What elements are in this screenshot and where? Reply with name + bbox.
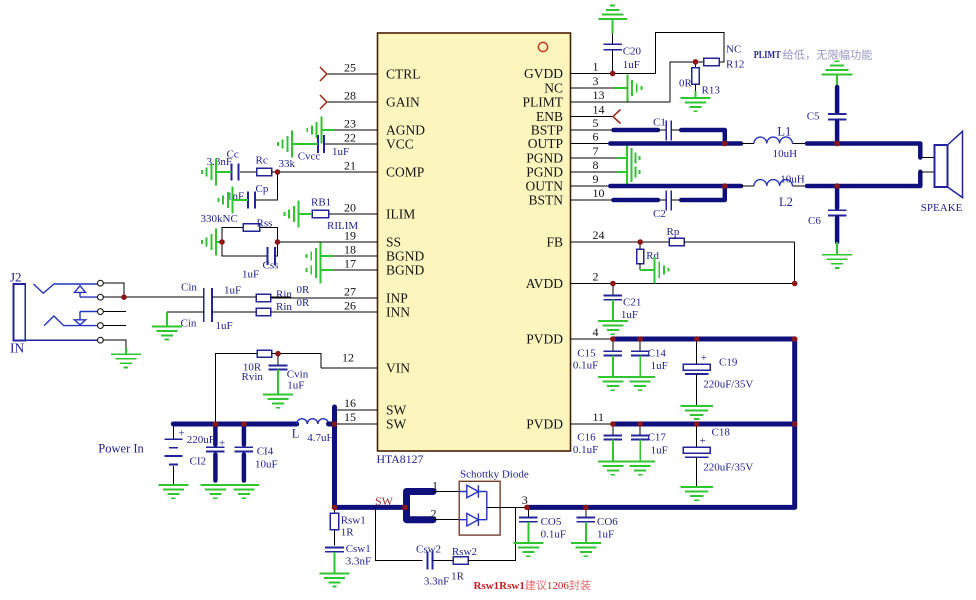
resistor Rd <box>637 242 660 270</box>
jack terminal circles <box>98 280 104 343</box>
wire Cin bottom to ground <box>167 311 204 313</box>
jack tip contact lever <box>34 284 98 293</box>
svg-text:33k: 33k <box>279 158 296 170</box>
ground C15 <box>598 355 628 390</box>
svg-text:INN: INN <box>386 305 410 320</box>
svg-text:给低，无限幅功能: 给低，无限幅功能 <box>783 48 873 62</box>
svg-text:Rvin: Rvin <box>242 371 264 383</box>
svg-text:PVDD: PVDD <box>526 417 563 432</box>
svg-text:220uF/35V: 220uF/35V <box>703 379 753 391</box>
svg-text:+: + <box>701 352 707 364</box>
svg-text:Power In: Power In <box>98 442 144 456</box>
svg-text:PGND: PGND <box>526 165 563 180</box>
inductor L 4.7uH <box>292 419 335 444</box>
svg-text:CO6: CO6 <box>597 516 618 528</box>
ground C16 <box>598 440 628 475</box>
pin 4 PVDD <box>526 325 614 347</box>
ground C6 <box>822 242 852 268</box>
capacitor Cvin 1uF <box>269 354 309 392</box>
ground CI2 <box>200 485 230 498</box>
wire speaker stub top <box>920 157 934 159</box>
svg-text:BSTN: BSTN <box>528 193 563 208</box>
svg-text:PLIMT: PLIMT <box>523 95 564 110</box>
wire OUTN to speaker <box>807 172 920 186</box>
ground C14 <box>625 355 655 390</box>
jack tip switch triangle <box>74 286 97 297</box>
svg-text:CTRL: CTRL <box>386 67 421 82</box>
wire jack ring2 stub <box>103 325 126 327</box>
wire C1 to OUTP <box>681 130 725 144</box>
wire Rin to pin 27 <box>271 296 291 298</box>
svg-text:+: + <box>700 435 706 447</box>
wire jack ring stub <box>103 311 126 313</box>
pin 1 GVDD <box>524 60 656 82</box>
resistor Rin 0R (INN) <box>256 297 310 316</box>
svg-text:1uF: 1uF <box>332 146 349 158</box>
svg-text:GVDD: GVDD <box>524 66 563 81</box>
svg-text:C20: C20 <box>623 46 642 58</box>
wire diode cathodes to pin3 <box>487 492 528 520</box>
wire BSTN thick <box>614 198 658 203</box>
ground RB1 sideways <box>284 201 312 228</box>
svg-text:GAIN: GAIN <box>386 95 420 110</box>
capacitor C15 0.1uF <box>573 339 622 372</box>
ground CO5 <box>513 522 543 556</box>
capacitor C18 220uF/35V polarized <box>683 424 753 487</box>
ground AGND sideways <box>307 117 334 144</box>
wire Rsw2 to output node <box>468 507 516 560</box>
svg-text:14: 14 <box>593 103 605 117</box>
svg-text:CI4: CI4 <box>257 446 274 458</box>
svg-text:15: 15 <box>344 410 356 424</box>
connector J2 audio jack body <box>10 270 98 356</box>
capacitor C17 1uF <box>631 424 668 457</box>
pin 23 AGND <box>334 117 425 138</box>
wire speaker stub bottom <box>920 171 934 173</box>
capacitor C6 <box>808 186 846 242</box>
jack ring switch triangle <box>74 312 97 325</box>
svg-text:OUTP: OUTP <box>528 136 563 151</box>
pin 10 BSTN <box>528 186 614 208</box>
capacitor C2 <box>653 191 681 221</box>
svg-text:C19: C19 <box>719 357 738 369</box>
svg-text:SPEAKE: SPEAKE <box>921 202 963 214</box>
pin 8 PGND <box>526 158 617 180</box>
svg-text:1: 1 <box>432 479 438 493</box>
svg-text:Cvcc: Cvcc <box>298 151 321 163</box>
svg-text:0R: 0R <box>297 284 311 296</box>
wire PLIMT to R13 node <box>670 62 696 102</box>
ground CO6 <box>571 522 601 556</box>
svg-text:1uF: 1uF <box>651 360 668 372</box>
svg-text:21: 21 <box>344 159 356 173</box>
pin 9 OUTN <box>526 172 615 194</box>
capacitor C19 220uF/35V polarized <box>683 339 753 406</box>
svg-text:Rin: Rin <box>276 289 292 301</box>
svg-text:BGND: BGND <box>386 263 425 278</box>
svg-text:L: L <box>292 427 300 441</box>
resistor Rvin 10R <box>215 350 278 424</box>
wire PVDD11 bus <box>613 422 795 427</box>
svg-text:0R: 0R <box>297 297 311 309</box>
pin 3 NC <box>544 74 613 96</box>
svg-text:0.1uF: 0.1uF <box>573 360 598 372</box>
svg-text:1uF: 1uF <box>597 529 614 541</box>
diode D1 top element <box>459 485 487 498</box>
svg-text:0R: 0R <box>679 78 693 90</box>
svg-text:L2: L2 <box>779 195 793 209</box>
ground Cin bottom <box>152 312 182 340</box>
wire OUTP thick <box>610 141 741 146</box>
svg-text:HTA8127: HTA8127 <box>377 452 424 466</box>
svg-text:1R: 1R <box>341 527 355 539</box>
pin 2 AVDD <box>526 270 795 292</box>
svg-text:22: 22 <box>344 131 356 145</box>
resistor Rss 330k NC loop <box>201 213 278 242</box>
wire GVDD to R12 route <box>656 33 724 74</box>
svg-text:CI2: CI2 <box>190 456 207 468</box>
svg-text:1R: 1R <box>451 571 465 583</box>
pin 18 BGND <box>333 243 424 264</box>
svg-text:6: 6 <box>593 130 599 144</box>
resistor R12 NC <box>696 44 745 71</box>
wire L to SW bar <box>329 422 335 427</box>
svg-text:C15: C15 <box>577 348 596 360</box>
ground Csw1 <box>320 552 350 587</box>
svg-text:SW: SW <box>386 417 407 432</box>
svg-text:Rsw1: Rsw1 <box>341 515 366 527</box>
svg-text:J2: J2 <box>10 270 22 285</box>
svg-text:C5: C5 <box>807 111 820 123</box>
svg-text:NC: NC <box>726 44 741 56</box>
pin 13 PLIMT <box>523 88 671 110</box>
ground C18 <box>680 487 713 500</box>
svg-text:12: 12 <box>342 351 354 365</box>
battery Power In source <box>98 424 184 485</box>
svg-text:1uF: 1uF <box>242 269 259 281</box>
svg-text:1uF: 1uF <box>287 380 304 392</box>
pin 28 GAIN <box>320 89 420 110</box>
pin 25 CTRL <box>320 61 421 82</box>
svg-text:13: 13 <box>593 88 605 102</box>
pin 17 BGND <box>333 257 424 278</box>
capacitor CO6 1uF <box>577 507 619 540</box>
capacitor Cvcc 1uF <box>298 135 349 163</box>
svg-text:C17: C17 <box>648 432 667 444</box>
svg-text:Rd: Rd <box>646 250 659 262</box>
ground SS sideways <box>202 229 222 256</box>
svg-text:Csw2: Csw2 <box>416 544 441 556</box>
capacitor Csw1 3.3nF <box>325 543 371 568</box>
ground jack sleeve <box>111 348 141 367</box>
svg-text:220uF: 220uF <box>187 434 215 446</box>
svg-text:20: 20 <box>344 201 356 215</box>
svg-text:C2: C2 <box>653 208 666 220</box>
svg-text:9: 9 <box>593 172 599 186</box>
svg-text:4: 4 <box>593 325 599 339</box>
svg-text:Csw1: Csw1 <box>346 543 371 555</box>
wire PVDD4 bus <box>613 337 795 342</box>
svg-text:Rp: Rp <box>667 226 680 238</box>
pin 11 PVDD <box>526 410 614 432</box>
wire Csw2 to Rsw2 <box>433 560 454 562</box>
pin 21 COMP <box>278 159 425 180</box>
svg-text:AGND: AGND <box>386 123 425 138</box>
svg-text:PVDD: PVDD <box>526 332 563 347</box>
svg-text:5: 5 <box>593 116 599 130</box>
wire SW bottom bus <box>335 505 405 510</box>
pin 19 SS <box>278 229 402 250</box>
ground BGND18 sideways <box>307 243 334 270</box>
resistor RB1 RILIM <box>311 197 358 233</box>
ground Cp sideways <box>218 187 248 214</box>
svg-text:Cin: Cin <box>181 318 197 330</box>
svg-text:C18: C18 <box>712 427 731 439</box>
wire Rvin to pin 12 <box>278 354 321 368</box>
wire BSTP thick <box>614 128 658 133</box>
diode D1 Schottky <box>459 469 529 536</box>
ground PGND8 sideways right <box>617 159 639 186</box>
svg-text:4.7uH: 4.7uH <box>307 432 334 444</box>
svg-text:C6: C6 <box>808 215 821 227</box>
wire Cin to Rin INP <box>212 296 256 298</box>
wire SW vertical bar <box>332 407 337 507</box>
svg-text:3.3nF: 3.3nF <box>424 576 449 588</box>
resistor Rin 0R (INP) <box>256 284 310 302</box>
resistor Rc 33k <box>240 155 296 176</box>
svg-text:Rsw2: Rsw2 <box>452 546 477 558</box>
ground C19 <box>680 406 713 419</box>
pin 15 SW <box>336 410 407 432</box>
svg-text:R13: R13 <box>702 85 721 97</box>
pin 24 FB <box>546 228 669 250</box>
svg-text:28: 28 <box>344 89 356 103</box>
svg-text:R12: R12 <box>726 59 744 71</box>
capacitor Cin top 1uF <box>181 282 241 308</box>
svg-text:+: + <box>219 438 225 450</box>
capacitor C21 1uF <box>604 284 642 322</box>
svg-text:2: 2 <box>593 270 599 284</box>
speaker SPEAKE <box>921 131 963 214</box>
inductor L1 10uH <box>741 125 807 161</box>
inductor L2 10uH <box>741 174 807 210</box>
svg-text:10uH: 10uH <box>773 148 798 160</box>
diode D1 bottom element <box>459 513 487 526</box>
capacitor C16 0.1uF <box>573 424 622 456</box>
svg-text:8: 8 <box>593 158 599 172</box>
wire INP node to Cin <box>124 296 204 298</box>
svg-text:IN: IN <box>10 341 24 356</box>
resistor Rp <box>667 226 795 246</box>
ground Cvin <box>263 370 293 408</box>
wire OUTP to speaker <box>807 144 920 158</box>
ground C17 <box>625 440 655 475</box>
wire jack tip to INP node <box>103 283 124 297</box>
wire SW U-shape to diode <box>407 492 434 520</box>
svg-text:0.1uF: 0.1uF <box>541 529 566 541</box>
svg-text:17: 17 <box>344 257 356 271</box>
ground R13 <box>681 98 711 111</box>
wire Cin bottom to Rin INN <box>212 311 256 313</box>
svg-text:1uF: 1uF <box>623 59 640 71</box>
svg-text:10uF: 10uF <box>255 459 278 471</box>
svg-text:NC: NC <box>544 81 563 96</box>
wire Rp to AVDD rail <box>794 242 796 284</box>
pin 26 INN <box>271 299 411 320</box>
svg-text:Rc: Rc <box>256 155 268 167</box>
svg-text:SS: SS <box>386 235 401 250</box>
capacitor Css 1uF loop <box>222 242 278 281</box>
svg-text:1uF: 1uF <box>216 320 233 332</box>
pin 20 ILIM <box>329 201 416 222</box>
svg-text:330kNC: 330kNC <box>201 213 238 225</box>
svg-text:Rin: Rin <box>276 301 292 313</box>
wire diode pin2 <box>431 507 460 521</box>
ground C5 inverted <box>822 61 853 86</box>
svg-text:PGND: PGND <box>526 151 563 166</box>
svg-text:INP: INP <box>386 291 408 306</box>
svg-text:1uF: 1uF <box>224 285 241 297</box>
svg-text:C1: C1 <box>653 117 666 129</box>
resistor Rsw1 1R <box>330 507 366 545</box>
capacitor Cin bottom 1uF <box>181 303 233 333</box>
capacitor Cp 1nF <box>227 183 269 209</box>
svg-text:24: 24 <box>593 228 605 242</box>
svg-text:11: 11 <box>593 410 605 424</box>
ground Cc sideways <box>202 159 232 186</box>
svg-text:Schottky Diode: Schottky Diode <box>460 469 529 481</box>
svg-text:2: 2 <box>431 507 437 521</box>
svg-text:C14: C14 <box>648 348 667 360</box>
svg-text:Css: Css <box>263 260 279 272</box>
svg-text:18: 18 <box>344 243 356 257</box>
ground BGND17 sideways <box>307 257 334 284</box>
wire diode pin1 <box>432 479 459 493</box>
svg-text:BGND: BGND <box>386 249 425 264</box>
wire output bus bottom <box>527 339 795 507</box>
wire jack sleeve to ground <box>103 340 126 348</box>
pin 7 PGND <box>526 144 617 166</box>
svg-text:26: 26 <box>344 299 356 313</box>
wire OUTN thick <box>610 184 741 189</box>
pin 14 ENB <box>536 103 621 125</box>
svg-text:COMP: COMP <box>386 165 424 180</box>
pin 5 BSTP <box>531 116 614 138</box>
resistor Rsw2 1R <box>451 546 477 583</box>
svg-text:27: 27 <box>344 285 356 299</box>
svg-text:Cin: Cin <box>181 282 197 294</box>
svg-text:23: 23 <box>344 117 356 131</box>
pin 27 INP <box>271 285 408 306</box>
ground C20 inverted <box>598 6 627 34</box>
wire snubber branch <box>376 507 423 560</box>
svg-text:VCC: VCC <box>386 137 414 152</box>
svg-text:1uF: 1uF <box>621 309 638 321</box>
svg-text:25: 25 <box>344 61 356 75</box>
svg-text:C21: C21 <box>623 297 641 309</box>
svg-text:Rsw1Rsw1建议1206封装: Rsw1Rsw1建议1206封装 <box>474 578 591 592</box>
svg-text:PLIMT: PLIMT <box>754 49 781 61</box>
ground PGND7 sideways right <box>617 145 639 172</box>
svg-text:SW: SW <box>386 403 407 418</box>
capacitor CI4 10uF <box>235 426 278 481</box>
pin 16 SW <box>336 396 407 418</box>
svg-text:VIN: VIN <box>386 361 410 376</box>
capacitor Csw2 3.3nF <box>416 544 449 588</box>
capacitor CO5 0.1uF <box>519 507 566 540</box>
svg-text:OUTN: OUTN <box>526 179 564 194</box>
svg-text:Cp: Cp <box>256 183 269 195</box>
capacitor C20 1uF <box>603 33 641 73</box>
svg-text:ILIM: ILIM <box>386 207 415 222</box>
capacitor Cc 3.3nF <box>207 149 239 181</box>
capacitor C5 <box>807 87 847 142</box>
capacitor C1 <box>653 117 681 141</box>
resistor R13 0R <box>679 62 720 98</box>
svg-text:10: 10 <box>593 186 605 200</box>
jack ring contact lever <box>44 316 98 326</box>
svg-text:16: 16 <box>344 396 356 410</box>
ground Cvcc sideways <box>278 131 318 158</box>
capacitor C14 1uF <box>631 339 668 372</box>
IC U1 HTA8127 body <box>377 33 571 466</box>
svg-text:SW: SW <box>375 494 394 508</box>
svg-text:FB: FB <box>546 235 563 250</box>
wire power bus thick <box>173 422 296 427</box>
svg-text:RB1: RB1 <box>311 197 331 209</box>
ground C21 <box>598 300 628 335</box>
svg-text:10uH: 10uH <box>780 174 805 186</box>
svg-text:+: + <box>179 428 185 440</box>
pin 6 OUTP <box>528 130 614 152</box>
svg-text:220uF/35V: 220uF/35V <box>703 462 753 474</box>
svg-text:3.3nF: 3.3nF <box>346 556 371 568</box>
svg-text:7: 7 <box>593 144 599 158</box>
ground Rd sideways right <box>640 256 668 283</box>
ground CI4 <box>229 485 259 498</box>
svg-text:19: 19 <box>344 229 356 243</box>
wire C2 to OUTN <box>681 186 725 200</box>
ground NC3 sideways right <box>614 75 642 102</box>
svg-text:L1: L1 <box>777 125 791 139</box>
pin 12 VIN <box>321 351 410 376</box>
pin 22 VCC <box>324 131 414 152</box>
svg-text:1: 1 <box>593 60 599 74</box>
svg-text:0.1uF: 0.1uF <box>573 444 598 456</box>
svg-text:3: 3 <box>593 74 599 88</box>
svg-text:AVDD: AVDD <box>526 276 564 291</box>
svg-text:Rss: Rss <box>257 218 273 230</box>
svg-text:C16: C16 <box>577 432 596 444</box>
svg-text:CO5: CO5 <box>541 516 562 528</box>
capacitor CI2 220uF <box>187 426 226 481</box>
ground battery <box>158 485 188 498</box>
svg-text:1uF: 1uF <box>651 445 668 457</box>
wire COMP to Cp branch <box>255 172 278 200</box>
